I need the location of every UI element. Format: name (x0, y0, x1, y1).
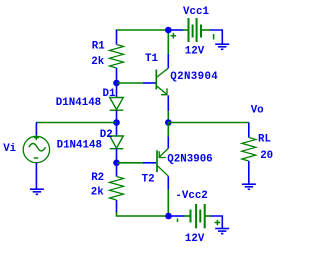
battery V1 Vcc1 (183, 18, 210, 42)
svg-text:D1N4148: D1N4148 (57, 139, 102, 151)
wire battery V2 to ground (211, 216, 223, 229)
wire junction to T2 base (117, 162, 144, 164)
ground (under RL) (242, 184, 256, 189)
wire collector junction to battery V1 (168, 29, 184, 31)
wire T2 collector pin (167, 176, 169, 189)
source Vi (23, 136, 49, 162)
wire R2 to bottom rail (117, 212, 169, 216)
ground (top right) (215, 44, 229, 49)
wire output to RL (168, 122, 249, 124)
svg-text:D1N4148: D1N4148 (56, 97, 101, 109)
wire T2 emitter from output node (167, 123, 169, 137)
wire junction to T1 base (117, 82, 144, 84)
node: output junction (T1 emitter / T2 emitter / Vo) (165, 119, 172, 126)
wire junction to Vi (36, 122, 117, 124)
svg-text:Q2N3904: Q2N3904 (170, 71, 218, 83)
node: D2 / R2 / T2 base junction (113, 160, 120, 167)
node: R1 / D1 / T1 base junction (113, 80, 120, 87)
plus marker of Vi (34, 135, 39, 140)
svg-text:12V: 12V (185, 233, 205, 245)
svg-text:Vcc1: Vcc1 (183, 6, 209, 18)
svg-text:Vo: Vo (251, 104, 264, 116)
resistor R2 (116, 163, 118, 177)
plus marker of V1 (171, 33, 177, 39)
svg-text:2k: 2k (91, 187, 104, 199)
wire top rail from R1 to collector junction (116, 29, 168, 31)
svg-text:Q2N3906: Q2N3906 (167, 153, 212, 165)
svg-text:R1: R1 (92, 41, 105, 53)
svg-text:2k: 2k (91, 56, 104, 68)
wire T1 emitter to output node (167, 111, 169, 122)
svg-text:Vi: Vi (3, 143, 16, 155)
wire T1 emitter pin (167, 95, 169, 111)
transistor T1 Q2N3904 (155, 70, 157, 90)
ground (bottom right) (215, 229, 229, 234)
wire T1 collector pin (167, 54, 169, 68)
node: D1 / D2 / Vi junction (113, 119, 120, 126)
svg-text:T1: T1 (145, 53, 158, 65)
minus marker of Vi (34, 157, 39, 159)
svg-text:T2: T2 (142, 174, 155, 186)
node: collector junction on top rail (165, 27, 172, 34)
minus marker of V2 (177, 219, 179, 223)
resistor R1 (116, 30, 118, 45)
wire junction to battery V2 (169, 215, 185, 217)
wire Vi bottom lead (35, 163, 37, 190)
svg-text:-Vcc2: -Vcc2 (175, 190, 207, 202)
plus marker of V2 (215, 220, 221, 226)
diode D2 (116, 123, 118, 137)
svg-text:R2: R2 (91, 172, 104, 184)
battery V2 -Vcc2 (184, 204, 211, 228)
resistor RL (248, 123, 250, 138)
svg-text:RL: RL (258, 133, 271, 145)
minus marker of V1 (213, 34, 215, 40)
wire T2 collector to bottom rail (167, 190, 169, 217)
wire T2 emitter pin (167, 136, 169, 148)
svg-text:20: 20 (260, 150, 273, 162)
node: bottom rail junction at battery V2 (165, 213, 172, 220)
wire Vi top pin (35, 123, 37, 136)
wire battery V1 to ground (210, 30, 222, 44)
transistor T2 Q2N3906 (156, 150, 158, 172)
diode D1 (116, 83, 118, 98)
wire T1 collector to top rail (167, 31, 169, 54)
svg-text:12V: 12V (185, 45, 205, 57)
ground (under Vi) (30, 189, 44, 194)
svg-text:D1: D1 (103, 88, 116, 100)
